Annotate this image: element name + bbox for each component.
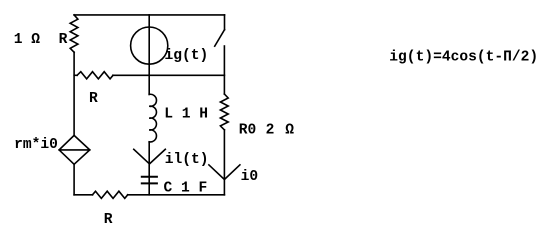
inductor L1	[149, 94, 156, 142]
current source ig circle	[131, 27, 168, 64]
wire center branch top	[148, 15, 150, 95]
svg-text:il(t): il(t)	[165, 152, 209, 168]
switch stub	[224, 15, 226, 30]
svg-text:Ω: Ω	[285, 122, 294, 138]
wire bottom left segment	[74, 194, 92, 196]
resistor R1	[70, 15, 78, 52]
resistor R3	[93, 191, 128, 198]
wire right branch upper	[223, 46, 225, 94]
svg-text:1 Ω: 1 Ω	[14, 32, 41, 48]
svg-text:L 1 H: L 1 H	[164, 107, 208, 123]
svg-text:ig(t)=4cos(t-Π/2): ig(t)=4cos(t-Π/2)	[389, 50, 538, 66]
switch blade	[215, 30, 225, 47]
arrow i0	[209, 165, 240, 180]
wire middle horizontal	[113, 74, 224, 76]
svg-text:C 1 F: C 1 F	[164, 181, 208, 197]
svg-text:2: 2	[266, 122, 275, 138]
svg-text:i0: i0	[241, 169, 259, 185]
svg-text:R: R	[89, 91, 98, 107]
svg-text:R: R	[59, 32, 68, 48]
wire center branch lower	[148, 142, 150, 195]
svg-text:R0: R0	[239, 122, 257, 138]
wire left branch upper	[73, 52, 75, 135]
wire bottom right segment	[128, 194, 225, 196]
svg-text:rm*i0: rm*i0	[14, 137, 58, 153]
wire right branch lower	[223, 130, 225, 195]
svg-text:ig(t): ig(t)	[165, 48, 209, 64]
arrow il(t)	[134, 149, 166, 164]
wire top horizontal	[74, 14, 224, 16]
wire middle horizontal stub	[74, 74, 77, 76]
resistor R0	[220, 94, 228, 130]
resistor R2	[77, 72, 113, 79]
svg-text:R: R	[104, 212, 113, 228]
capacitor C1 bottom plate	[142, 182, 157, 184]
capacitor C1 top plate	[142, 176, 157, 178]
wire left branch lower	[73, 164, 75, 195]
dependent source rm*i0 diamond	[59, 135, 90, 164]
